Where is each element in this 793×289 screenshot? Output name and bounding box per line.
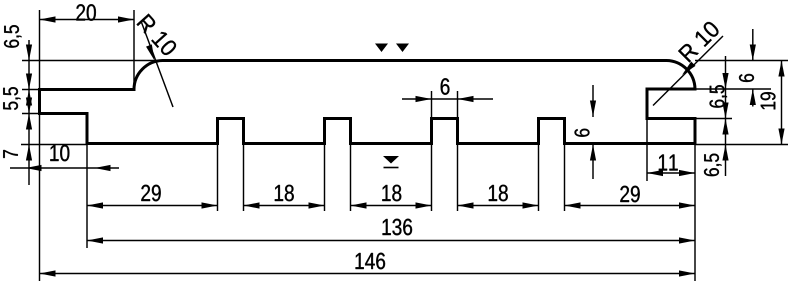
extension line bottom level left bbox=[21, 144, 87, 146]
extension lines groove 3 walls down bbox=[431, 144, 433, 212]
extension line step vertical bbox=[86, 144, 88, 249]
radius label R 10 right bbox=[678, 20, 721, 63]
dimension 146 line bbox=[40, 273, 696, 275]
right chain arrow at groove top bbox=[722, 73, 728, 89]
extension line top-surface left bbox=[22, 60, 163, 62]
extension line rebate end vertical bbox=[133, 10, 135, 90]
radius leader arrow right bbox=[680, 62, 696, 78]
dimension 136 line bbox=[87, 240, 695, 242]
profile outline (board cross-section, thick) bbox=[40, 61, 696, 144]
dimension 19 line bbox=[781, 61, 783, 145]
extension lines groove 4 walls down bbox=[538, 144, 540, 212]
dimension 18 second line bbox=[351, 205, 432, 207]
dimension 18 third arrows bbox=[458, 202, 474, 208]
dimension 6 right lines bbox=[752, 29, 754, 61]
extension line tongue underside left bbox=[22, 113, 40, 115]
dimension 18 first text bbox=[275, 185, 294, 201]
extension line bottom level right bbox=[695, 144, 788, 146]
radius label R 10 left bbox=[136, 13, 178, 57]
dimension 18 first arrows bbox=[244, 202, 260, 208]
extension line top-surface right bbox=[695, 60, 788, 62]
dimension 19 text bbox=[761, 92, 776, 109]
dimension 18 third text bbox=[489, 185, 508, 201]
dimension 29 right text bbox=[620, 186, 639, 202]
dimension 146 arrows bbox=[40, 270, 56, 276]
dimension 18 third line bbox=[458, 205, 539, 207]
dimension 11 arrows bbox=[647, 170, 663, 176]
left chain dimension line bbox=[28, 40, 30, 185]
dimension 6 right arrows bbox=[750, 45, 756, 61]
dimension 11 line bbox=[647, 172, 695, 174]
dimension 10 line bbox=[10, 167, 119, 169]
dimension 146 text bbox=[356, 253, 386, 269]
extension line rebate level left bbox=[22, 89, 40, 91]
finish mark triangle bottom bbox=[383, 156, 399, 164]
right chain arrows at groove bottom bbox=[722, 119, 728, 135]
left chain arrow at bottom bbox=[26, 145, 32, 161]
radius leader line right bbox=[653, 36, 723, 106]
dimension 136 text bbox=[383, 219, 413, 235]
dimension 136 arrows bbox=[87, 237, 103, 243]
dimension 6 groove-width text bbox=[441, 78, 450, 94]
dimension 29 left text bbox=[141, 185, 160, 201]
finish mark triangles top bbox=[375, 44, 388, 53]
dimension 6 groove-depth lines bbox=[592, 85, 594, 117]
dimension 20 text bbox=[76, 4, 95, 20]
extension lines groove 2 walls down bbox=[324, 144, 326, 212]
radius leader line left bbox=[141, 21, 173, 107]
dimension 6 groove-depth text bbox=[575, 129, 590, 137]
dimension 6 groove-width arrows bbox=[416, 96, 432, 102]
dimension 6,5 right-lower text bbox=[704, 154, 722, 176]
dimension 20 line bbox=[40, 19, 135, 21]
left chain arrow at top surface bbox=[26, 45, 32, 61]
dimension 29 left arrows bbox=[87, 202, 103, 208]
dimension 20 arrows bbox=[40, 16, 56, 22]
dimension 6,5 left text bbox=[4, 25, 22, 47]
extension lines groove 1 walls down bbox=[217, 144, 219, 212]
dimension 18 second text bbox=[382, 185, 401, 201]
dimension 29 right line bbox=[565, 205, 696, 207]
extension lines groove 3 walls up (for 6 dim) bbox=[431, 91, 433, 117]
dimension 18 first line bbox=[244, 205, 325, 207]
dimension 18 second arrows bbox=[351, 202, 367, 208]
dimension 6 right text bbox=[739, 74, 754, 82]
dimension 10 text bbox=[50, 145, 69, 161]
extension line right-groove inner wall down bbox=[646, 119, 648, 182]
left chain arrows at rebate level bbox=[26, 74, 32, 90]
radius leader arrow left bbox=[146, 44, 157, 61]
right chain dimension line bbox=[725, 56, 727, 176]
dimension 19 arrows bbox=[778, 61, 784, 77]
dimension 7 text bbox=[3, 150, 18, 158]
dimension 10 arrows bbox=[26, 165, 42, 171]
extension line right groove bottom bbox=[695, 118, 732, 120]
extension line left edge vertical lower bbox=[39, 114, 41, 282]
dimension 6,5 right-middle text bbox=[710, 85, 728, 107]
dimension 11 text bbox=[659, 154, 678, 170]
dimension 29 left line bbox=[87, 205, 218, 207]
extension line right groove top bbox=[695, 88, 771, 90]
extension line right edge vertical bbox=[694, 144, 696, 282]
dimension 6 groove-width line bbox=[402, 98, 493, 100]
right chain arrow at bottom bbox=[722, 145, 728, 161]
extension line left edge vertical upper bbox=[39, 10, 41, 90]
left chain arrows at tongue underside bbox=[26, 98, 32, 114]
dimension 29 right arrows bbox=[565, 202, 581, 208]
dimension 5,5 text bbox=[3, 87, 20, 110]
dimension 6 groove-depth arrows bbox=[590, 101, 596, 117]
